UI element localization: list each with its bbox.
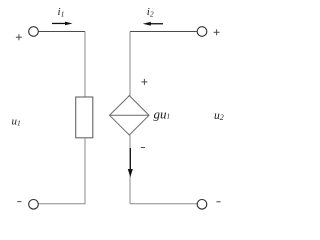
svg-text:gu1: gu1 [154,107,171,122]
terminal circle bottom-left [29,200,39,210]
arrow source current direction down [128,148,133,177]
minus sign dependent source [141,147,145,149]
resistor left branch [76,97,93,138]
terminal circle bottom-right [197,200,207,210]
dependent source diamond gu1 [110,96,150,135]
wire right vertical upper [129,32,131,97]
wire top-right horizontal [130,31,197,33]
wire left vertical upper [84,32,86,98]
wire bottom-right horizontal [130,203,197,205]
terminal circle top-left [29,27,39,37]
svg-text:u2: u2 [214,110,224,122]
plus sign left port [16,34,22,40]
wire top-left horizontal [38,31,85,33]
arrow i2 current direction left [143,22,163,26]
plus sign right port [214,29,220,35]
terminal circle top-right [197,27,207,37]
wire bottom-left horizontal [38,203,85,205]
arrow i1 current direction right [52,22,73,26]
minus sign left port [17,201,21,203]
svg-text:i1: i1 [58,6,65,19]
wire left vertical lower [84,138,86,204]
svg-text:u1: u1 [12,116,21,128]
plus sign dependent source [141,79,147,85]
wire right vertical lower [129,135,131,204]
svg-text:i2: i2 [147,6,154,19]
minus sign right port [216,201,220,203]
